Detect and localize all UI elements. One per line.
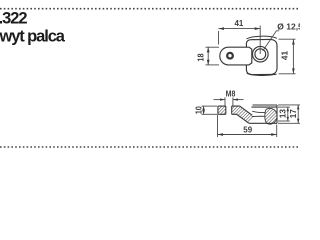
svg-text:M8: M8 [226, 88, 236, 98]
svg-text:10: 10 [194, 106, 204, 115]
dim 59: dimension line [218, 134, 277, 136]
dim 18: dimension line [207, 47, 209, 65]
body bottom sag edge [247, 73, 277, 75]
section outline right block top edges [253, 104, 278, 106]
dim 59: extension lines [217, 115, 219, 137]
dim 13: dimension line [287, 107, 289, 121]
body U1 front face outline [246, 39, 277, 74]
section hatched areas [218, 106, 277, 124]
arrowheads 59 [218, 133, 224, 136]
hole channel wavy lines [252, 111, 265, 112]
dim 41 right: dimension line [292, 39, 294, 74]
hatch right lens [265, 108, 277, 124]
section outline left plate [218, 106, 226, 114]
arrowheads M8 (pointing inward) [220, 98, 225, 100]
arrowheads 13 [287, 107, 289, 111]
tab hole (thick ring) [227, 53, 233, 59]
svg-text:41: 41 [280, 51, 290, 61]
dim 10: dimension line [203, 106, 205, 114]
dim 17: dimension line [297, 105, 299, 123]
leader line for hole diameter [263, 31, 280, 51]
arrowheads 41 top [219, 27, 225, 30]
svg-text:1.322: 1.322 [0, 10, 27, 28]
dim 41 right: extension lines [279, 38, 296, 40]
arrowheads 10 [202, 106, 205, 110]
svg-text:18: 18 [196, 53, 206, 62]
hatch left plate block [218, 106, 226, 114]
svg-text:Uchwyt palca: Uchwyt palca [0, 28, 66, 46]
svg-text:41: 41 [235, 18, 244, 28]
dim 10: extension lines [202, 105, 218, 107]
body top face band (3D hint) [247, 36, 277, 39]
dim 18: extension lines [206, 46, 220, 48]
svg-text:Ø 12,5: Ø 12,5 [277, 21, 300, 31]
arrowheads 17 [297, 105, 299, 110]
dim 41 top: extension lines [218, 31, 220, 45]
hatch slanted middle block [232, 106, 253, 123]
dim 41 top: dimension line [219, 28, 261, 30]
lens outline [265, 108, 277, 124]
svg-text:59: 59 [243, 125, 252, 135]
big hole outer circle [252, 46, 268, 62]
dim 13: extension lines [278, 106, 290, 108]
section outline: bottom edge to slant [232, 114, 249, 123]
svg-text:17: 17 [288, 109, 298, 118]
tab (stadium with small bolt hole) [220, 47, 252, 65]
dim M8: extension lines [224, 97, 226, 105]
top dotted separator line [0, 8, 300, 10]
section outline right block bottom edge [249, 122, 277, 124]
big hole inner circle (chamfer) [255, 49, 266, 60]
svg-text:13: 13 [278, 109, 288, 118]
dim 17: extension lines [278, 104, 300, 106]
dim M8: dimension line segments [214, 99, 226, 101]
section outline right block right edge [276, 105, 278, 123]
bottom dotted separator line [0, 146, 300, 148]
arrowheads 18 [207, 47, 210, 52]
M8 hole edge lines [225, 106, 227, 114]
section outline: top edge to slant [232, 106, 253, 115]
arrowheads 41 right [292, 39, 295, 44]
